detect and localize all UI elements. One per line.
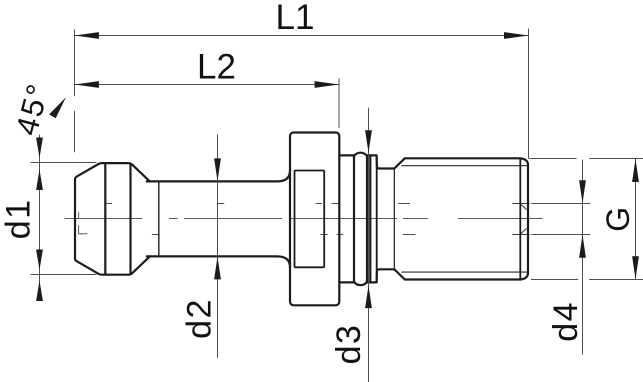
thread relief wall edge line (393, 169, 395, 270)
d3 upper arrowhead (365, 130, 372, 153)
thread minor diameter line lower (402, 271, 528, 273)
svg-text:G: G (600, 207, 636, 232)
thread minor diameter line upper (402, 165, 528, 167)
d1 top outer arrowhead (36, 138, 43, 159)
d1 bottom outer arrowhead (36, 281, 43, 302)
bore end chamfer, lower (521, 229, 527, 234)
o-ring seat surface upper left (339, 154, 354, 156)
head sphere center marks (79, 212, 88, 234)
svg-text:d2: d2 (180, 298, 218, 339)
o-ring bulge top (354, 153, 367, 156)
svg-text:L1: L1 (276, 0, 315, 37)
thread relief groove profile bottom (377, 269, 405, 282)
neck upper line with fillet into flange (147, 171, 290, 182)
45 degrees leader arrowhead (49, 97, 66, 118)
centerline (horizontal axis chain line) (65, 218, 543, 220)
o-ring groove wall left (353, 156, 355, 282)
thread relief groove profile top (377, 155, 405, 168)
pull stud head outline (45deg chamfered knob) (75, 163, 150, 275)
dimension d2 line (217, 134, 219, 358)
threaded shank outline with end face (405, 158, 528, 279)
thread end chamfer edge line (519, 158, 521, 279)
neck lower line with fillet into flange (147, 256, 290, 267)
o-ring groove wall right (366, 156, 368, 282)
d4 upper arrowhead (579, 180, 586, 203)
L2 left arrowhead (75, 81, 99, 88)
o-ring seat surface upper right (367, 154, 377, 156)
svg-text:d3: d3 (330, 324, 368, 365)
neck tangent edge line (158, 181, 160, 256)
L1 right arrowhead (504, 32, 528, 39)
svg-text:d4: d4 (547, 301, 585, 342)
coolant bore hidden line, lower (152, 234, 416, 236)
dimension L1 lines (75, 29, 529, 159)
dimension d4 lines (531, 160, 590, 355)
d3 lower arrowhead (365, 286, 372, 309)
L2 right arrowhead (315, 81, 339, 88)
head edge line right (129, 163, 131, 275)
o-ring seat surface lower left (339, 281, 354, 283)
o-ring bulge bottom (354, 282, 367, 285)
coolant bore hidden line, upper (107, 203, 410, 205)
bore end segment, lower (512, 234, 529, 236)
L1 left arrowhead (75, 32, 99, 39)
d4 lower arrowhead (579, 235, 586, 258)
head edge line left (cone/cylinder tangent) (104, 163, 106, 275)
o-ring seat surface lower right (367, 281, 377, 283)
d2 lower arrowhead (214, 257, 221, 280)
dimension d3 line (368, 108, 370, 382)
dimension G lines (thread size) (529, 159, 643, 280)
d1 bottom inner arrowhead (36, 250, 43, 271)
d2 upper arrowhead (214, 158, 221, 181)
land edge line (369, 155, 371, 282)
dimension L2 lines (75, 78, 339, 128)
svg-text:L2: L2 (197, 48, 236, 87)
bore end segment, upper (512, 203, 529, 205)
relief shoulder edge line (376, 155, 378, 282)
G top arrowhead (632, 159, 639, 182)
G bottom arrowhead (632, 256, 639, 279)
flange outline (290, 133, 339, 306)
svg-text:d1: d1 (0, 198, 37, 239)
bore end chamfer, upper (521, 205, 527, 210)
d1 top inner arrowhead (36, 170, 43, 191)
dimension d1 lines (31, 135, 97, 301)
flange inner cylinder edge rectangle (295, 171, 325, 268)
